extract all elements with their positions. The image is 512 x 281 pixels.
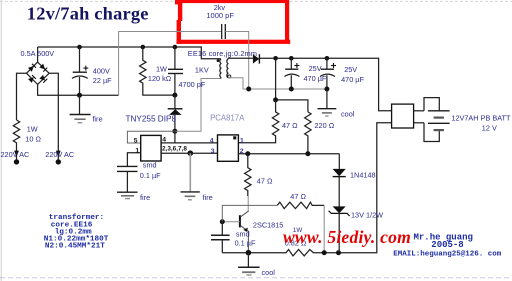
ground fire (TNY source)	[181, 191, 200, 193]
resistor 47 ohm (to opto pin1)	[238, 100, 278, 143]
svg-text:220V AC: 220V AC	[1, 150, 30, 159]
node: rail branch	[273, 56, 278, 61]
resistor 120k 1W	[140, 47, 175, 95]
svg-text:47 Ω: 47 Ω	[257, 176, 273, 185]
svg-text:22 µF: 22 µF	[93, 76, 112, 85]
capacitor 22uF 400V	[79, 47, 81, 72]
svg-text:12V7AH PB BATT: 12V7AH PB BATT	[451, 113, 511, 122]
svg-text:N2:0.45MM*21T: N2:0.45MM*21T	[45, 243, 105, 251]
wire: PC817 pin2 line to zener chain	[238, 153, 339, 155]
svg-text:25V: 25V	[309, 64, 322, 73]
diode 1N4148	[333, 169, 346, 176]
resistor 220 ohm	[305, 112, 311, 154]
ground cool (secondary)	[326, 89, 328, 108]
svg-text:4: 4	[210, 137, 214, 144]
wire: secondary bottom (gray)	[228, 78, 327, 89]
diode zener 13V 1/2W	[333, 206, 346, 213]
wire: connector to battery stubs	[414, 110, 424, 112]
wire: bottom sense rail with 0.82 ohm	[222, 123, 391, 256]
transistor 2SC1815	[239, 215, 241, 227]
wire: to collector (gray)	[247, 196, 249, 211]
svg-text:25V: 25V	[344, 65, 357, 74]
transformer primary winding	[220, 59, 221, 79]
page border left	[0, 0, 2, 281]
svg-text:2SC1815: 2SC1815	[253, 221, 283, 230]
svg-text:fire: fire	[203, 193, 213, 202]
node: rail / 4700pF top	[173, 45, 178, 50]
svg-text:47 Ω: 47 Ω	[290, 192, 306, 201]
ground cool (emitter)	[247, 253, 249, 267]
capacitor 470uF 25V (first)	[290, 58, 292, 69]
svg-text:47 Ω: 47 Ω	[282, 121, 298, 130]
resistor 10 ohm 1W	[13, 120, 19, 144]
page border bottom scan artifact	[0, 277, 512, 279]
svg-text:0.5A 500V: 0.5A 500V	[21, 49, 55, 58]
capacitor 4700pF 1KV	[174, 47, 176, 69]
svg-text:1: 1	[240, 137, 244, 144]
node: AC terminal 2	[56, 159, 61, 164]
ground fire (TNY bypass)	[117, 191, 138, 193]
capacitor 470uF 25V (second)	[326, 58, 328, 69]
svg-text:www. 5iediy. com: www. 5iediy. com	[283, 227, 411, 247]
wire: ground stem (gray)	[189, 153, 191, 191]
battery plates	[428, 110, 450, 112]
svg-text:3: 3	[211, 148, 215, 155]
node: rail / 22uF top	[77, 45, 82, 50]
wire: zener chain down	[338, 154, 340, 169]
resistor 47 ohm (collector)	[245, 154, 251, 196]
svg-text:12 V: 12 V	[482, 124, 497, 133]
resistor 47 ohm (base)	[277, 202, 324, 208]
AC terminal arrow 1	[14, 151, 19, 157]
battery 12V7AH upper bracket	[424, 98, 439, 111]
wire: TNY pins 2,3,6,7,8 to PC817 pin3	[161, 152, 217, 154]
wire: negative rail up and across to Y-cap (gray)	[119, 32, 222, 96]
node: emitter ground	[246, 250, 252, 256]
svg-text:10 Ω: 10 Ω	[25, 135, 41, 144]
svg-text:1000 pF: 1000 pF	[206, 11, 234, 20]
bridge diode upper-right	[39, 64, 47, 72]
wire: bridge top lead	[37, 47, 39, 62]
wire: base node up and right (gray)	[222, 205, 277, 221]
ground fire (22uF)	[79, 95, 81, 114]
svg-text:1N4148: 1N4148	[350, 171, 376, 180]
svg-text:smd: smd	[143, 160, 157, 169]
node: divider top	[273, 97, 278, 102]
bridge rectifier diamond	[27, 62, 50, 84]
node: rail / 120k top	[141, 45, 146, 50]
transformer primary polarity dot	[217, 59, 220, 62]
svg-text:TNY255 DIP8: TNY255 DIP8	[126, 114, 177, 123]
svg-text:1W: 1W	[27, 125, 38, 134]
node: snubber junction	[172, 93, 177, 98]
node: cap2 bottom	[324, 87, 329, 92]
svg-text:fire: fire	[140, 193, 150, 202]
wire: down to sense rail (gray)	[323, 205, 325, 252]
svg-text:0.1 µF: 0.1 µF	[235, 239, 256, 248]
node: 47b top	[245, 151, 250, 156]
IC TNY255 box	[141, 135, 161, 161]
svg-text:2005-8: 2005-8	[431, 240, 463, 250]
svg-text:5: 5	[134, 138, 138, 145]
node: base node	[220, 219, 225, 224]
node: cap2 top	[325, 56, 330, 61]
svg-text:EE16 core,jg:0.2mm: EE16 core,jg:0.2mm	[188, 49, 257, 58]
node: Y-cap to secondary gnd	[246, 87, 251, 92]
svg-text:4700 pF: 4700 pF	[179, 80, 206, 89]
wire: TNY pin4 to PC817 pin4	[161, 142, 217, 144]
battery connector box	[392, 104, 414, 128]
wire: to 220 ohm top	[276, 100, 308, 112]
svg-text:0.1 µF: 0.1 µF	[140, 171, 161, 180]
svg-text:1KV: 1KV	[195, 66, 209, 75]
wire: TNY pin1 to smd cap	[127, 153, 140, 167]
svg-text:cool: cool	[262, 268, 276, 277]
wire: bridge left to AC input 1	[17, 73, 27, 120]
wire: bridge right to AC input 2	[49, 73, 58, 159]
wire: drain node to TNY pin5	[127, 131, 174, 143]
wire: drain node down to pin4 wire	[174, 131, 176, 143]
svg-text:PCA817A: PCA817A	[210, 113, 245, 122]
node: drain node	[172, 129, 177, 134]
svg-text:220V AC: 220V AC	[45, 150, 74, 159]
wire: secondary positive rail	[259, 58, 391, 111]
bridge diode lower-left	[28, 75, 36, 83]
node: 22uF bottom	[77, 93, 82, 98]
optocoupler PC817 box	[218, 135, 239, 161]
wire: base	[222, 221, 240, 223]
svg-text:fire: fire	[92, 115, 102, 124]
wire: main positive rail to primary top	[38, 47, 221, 59]
svg-text:1W: 1W	[156, 65, 167, 74]
svg-text:400V: 400V	[93, 67, 110, 76]
svg-text:120 kΩ: 120 kΩ	[148, 74, 172, 83]
svg-text:220 Ω: 220 Ω	[315, 121, 335, 130]
page border top	[0, 0, 512, 2]
wire: rail branch down	[275, 58, 277, 100]
node: zener chain to rail	[336, 250, 341, 255]
node: source ground junction	[188, 150, 194, 156]
node: 47 base resistor to rail	[322, 250, 327, 255]
diode snubber (blocking)	[174, 95, 176, 109]
svg-text:cool: cool	[341, 110, 355, 119]
capacitor 1000pF 2kv (Y-cap)	[221, 24, 223, 39]
svg-text:smd: smd	[236, 230, 250, 239]
node: cap1 bottom	[289, 87, 294, 92]
AC terminal arrow 2	[56, 151, 61, 157]
bridge diode lower-right	[39, 75, 47, 83]
red highlight box (hand-drawn, irregular)	[175, 0, 290, 44]
node: 220 bottom	[305, 151, 310, 156]
svg-text:2,3,6,7,8: 2,3,6,7,8	[162, 146, 187, 153]
capacitor smd 0.1uF (TNY bypass)	[117, 165, 138, 167]
wire: secondary top to rectifier diode	[228, 57, 253, 59]
svg-text:12v/7ah charge: 12v/7ah charge	[27, 4, 149, 24]
capacitor smd 0.1uF (base)	[221, 222, 223, 236]
bridge diode upper-left	[28, 64, 36, 72]
wire: resistor to AC terminal 1	[16, 144, 18, 160]
wire: bridge bottom to negative rail	[38, 84, 119, 95]
node: AC terminal 1	[14, 159, 19, 164]
svg-text:470 µF: 470 µF	[341, 75, 364, 84]
transformer secondary winding	[227, 58, 228, 78]
svg-text:EMAIL:heguang25@126. com: EMAIL:heguang25@126. com	[393, 250, 502, 258]
wire: drain node to primary bottom (gray)	[175, 79, 221, 132]
wire: Y-cap right lead (gray)	[225, 32, 248, 90]
node: cap1 top	[289, 56, 294, 61]
transformer secondary polarity circle	[228, 75, 231, 78]
diode secondary rectifier	[253, 54, 259, 63]
svg-text:13V 1/2W: 13V 1/2W	[351, 210, 383, 219]
battery lower bracket	[424, 123, 439, 142]
